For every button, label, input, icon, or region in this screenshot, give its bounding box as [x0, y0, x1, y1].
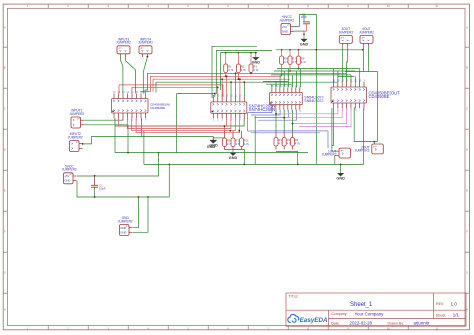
svg-text:JUMPER2: JUMPER2	[138, 41, 153, 45]
svg-text:R1: R1	[228, 64, 232, 68]
svg-text:JUMPER2: JUMPER2	[338, 30, 353, 34]
svg-text:R3: R3	[253, 64, 257, 68]
svg-text:Sheet_1: Sheet_1	[350, 302, 373, 308]
svg-text:10: 10	[387, 4, 391, 8]
svg-text:F: F	[466, 230, 468, 234]
svg-text:R6: R6	[284, 56, 288, 60]
svg-text:R5: R5	[295, 138, 299, 142]
svg-text:G: G	[4, 271, 6, 275]
svg-text:H: H	[466, 307, 468, 311]
svg-text:11: 11	[435, 4, 438, 8]
svg-text:JUMPER2: JUMPER2	[118, 219, 133, 223]
svg-text:10pF: 10pF	[99, 187, 106, 191]
svg-text:B: B	[4, 66, 6, 70]
svg-text:Date:: Date:	[331, 321, 340, 325]
svg-text:A: A	[466, 26, 468, 30]
svg-text:TITLE:: TITLE:	[289, 295, 299, 299]
svg-text:4.7k: 4.7k	[253, 68, 259, 72]
svg-text:REV:: REV:	[436, 302, 444, 306]
svg-text:JUMPER2: JUMPER2	[322, 153, 337, 157]
svg-text:C: C	[466, 107, 468, 111]
svg-text:C: C	[4, 107, 6, 111]
svg-text:Drawn By:: Drawn By:	[388, 321, 405, 325]
svg-text:EasyEDA: EasyEDA	[300, 317, 328, 324]
svg-text:R8: R8	[301, 56, 305, 60]
svg-text:arjunnitr: arjunnitr	[414, 320, 430, 325]
svg-text:Sheet:: Sheet:	[436, 313, 446, 317]
svg-text:H: H	[4, 307, 6, 311]
svg-text:4.7k: 4.7k	[295, 142, 301, 146]
svg-text:JUMPER2: JUMPER2	[69, 112, 84, 116]
svg-text:F: F	[4, 230, 6, 234]
svg-text:E: E	[4, 189, 6, 193]
svg-text:JUMPER2: JUMPER2	[62, 168, 77, 172]
svg-text:4.7k: 4.7k	[241, 68, 247, 72]
svg-text:4.7k: 4.7k	[244, 142, 250, 146]
svg-text:B: B	[466, 66, 468, 70]
svg-text:CD4050BE: CD4050BE	[369, 94, 390, 99]
svg-text:JUMPER2: JUMPER2	[68, 135, 83, 139]
svg-text:A: A	[4, 26, 6, 30]
svg-text:GND: GND	[252, 61, 261, 65]
svg-text:GND: GND	[300, 43, 309, 47]
svg-text:1/1: 1/1	[453, 313, 460, 318]
svg-text:GND: GND	[64, 179, 70, 183]
svg-text:D: D	[4, 148, 6, 152]
svg-text:4.7k: 4.7k	[228, 68, 234, 72]
svg-text:E: E	[466, 189, 468, 193]
svg-text:R9: R9	[227, 138, 231, 142]
svg-text:R4: R4	[287, 138, 291, 142]
svg-text:4.7k: 4.7k	[301, 60, 307, 64]
svg-text:Company:: Company:	[331, 312, 347, 316]
svg-text:G: G	[466, 271, 468, 275]
svg-text:JUMPER2: JUMPER2	[116, 41, 131, 45]
svg-text:10: 10	[387, 326, 391, 330]
svg-text:R3: R3	[278, 138, 282, 142]
svg-text:JUMPER2: JUMPER2	[359, 30, 374, 34]
svg-text:Your Company: Your Company	[355, 311, 385, 316]
svg-text:D: D	[466, 148, 468, 152]
svg-text:1.0: 1.0	[451, 301, 458, 306]
svg-text:GND: GND	[282, 29, 288, 33]
svg-text:R2: R2	[241, 64, 245, 68]
svg-text:GND: GND	[120, 230, 126, 234]
svg-text:CD4050BE: CD4050BE	[150, 106, 165, 110]
svg-text:SN54LS07J: SN54LS07J	[304, 99, 323, 103]
svg-text:11: 11	[435, 326, 438, 330]
svg-text:GND: GND	[336, 177, 345, 181]
svg-text:R11: R11	[244, 138, 249, 142]
svg-text:R7: R7	[292, 56, 296, 60]
svg-text:GND: GND	[207, 145, 216, 149]
svg-text:JUMPER2: JUMPER2	[355, 149, 370, 153]
svg-text:JUMPER2: JUMPER2	[279, 18, 294, 22]
svg-text:2022-02-28: 2022-02-28	[350, 320, 373, 325]
svg-text:GND: GND	[229, 156, 238, 160]
